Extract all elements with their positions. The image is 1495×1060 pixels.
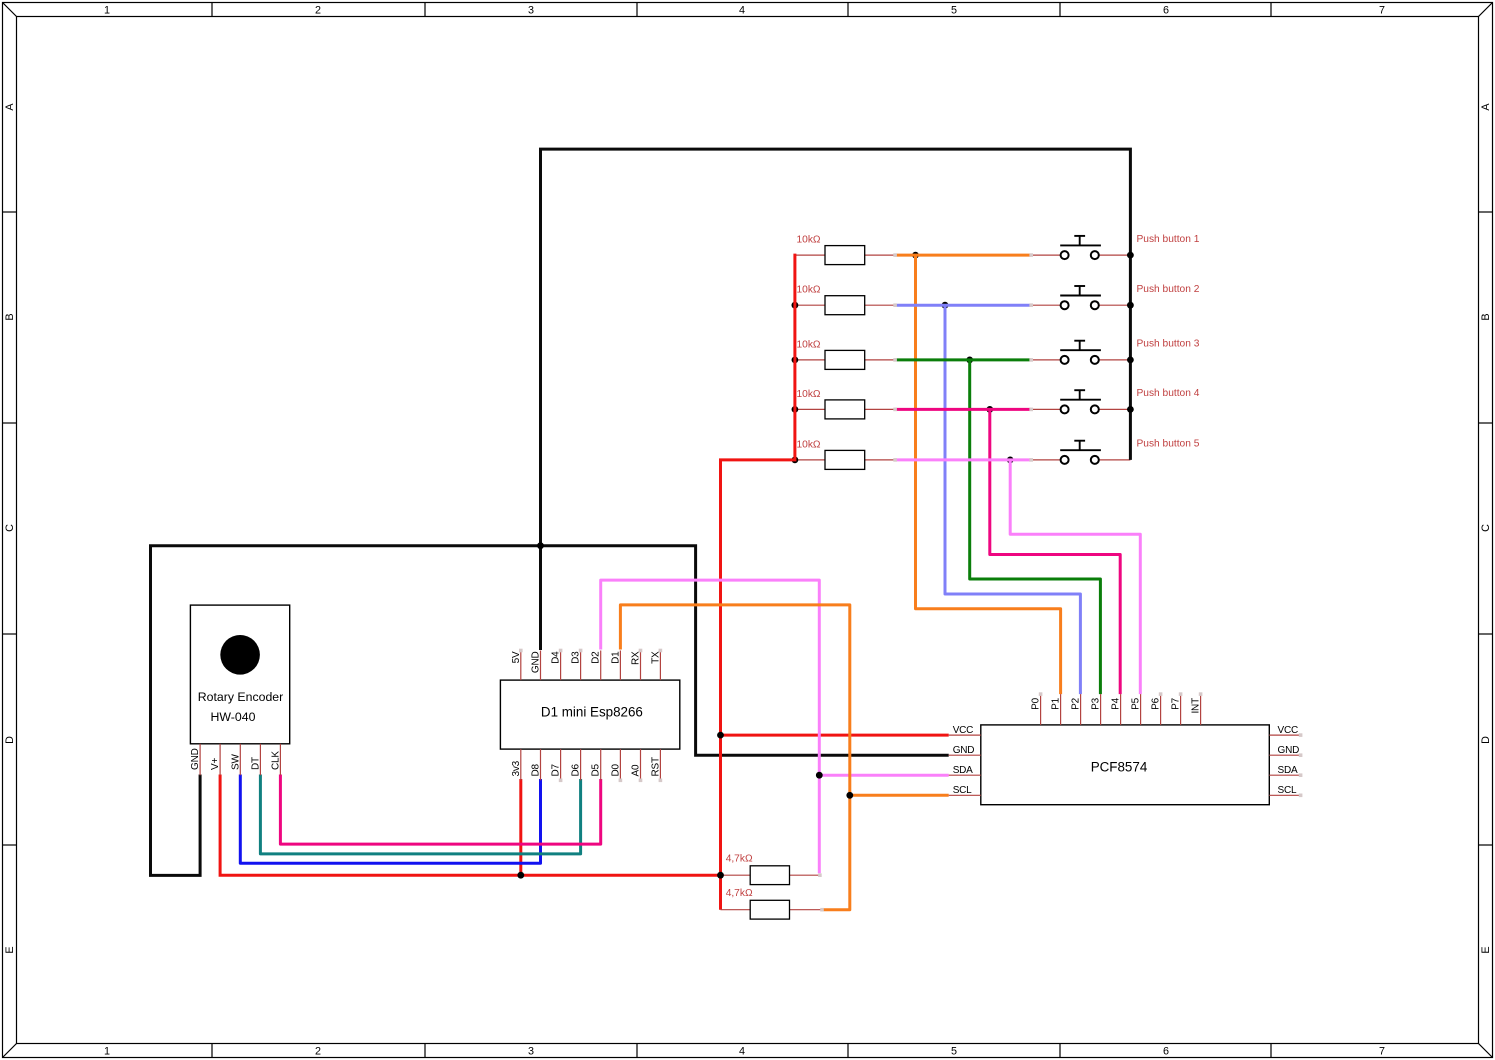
PCF8574 body U2 <box>981 725 1270 805</box>
svg-text:RST: RST <box>650 757 661 776</box>
svg-text:GND: GND <box>1278 745 1300 756</box>
svg-text:E: E <box>4 946 16 953</box>
svg-text:D1: D1 <box>610 651 621 664</box>
node resistor R2 on +V bus <box>792 302 799 309</box>
node button4 branch (under wire) <box>986 406 993 413</box>
wire: red 3v3 from D1 mini down to V+ rail <box>519 779 522 875</box>
svg-text:D4: D4 <box>551 651 562 664</box>
svg-text:A: A <box>4 103 16 111</box>
wire: SDA branch to PCF8574 <box>819 774 948 777</box>
D1 mini bottom pin labels <box>511 757 662 776</box>
wire: button row 3 colored segment <box>895 358 1031 361</box>
wire: red branch to PCF8574 VCC <box>721 734 949 737</box>
svg-text:SCL: SCL <box>1278 785 1297 796</box>
svg-text:Push button 4: Push button 4 <box>1137 388 1200 399</box>
node button5 branch (under wire) <box>1007 457 1014 464</box>
svg-text:SCL: SCL <box>953 785 972 796</box>
svg-text:D3: D3 <box>571 651 582 664</box>
svg-text:GND: GND <box>531 652 542 674</box>
frame row ticks right <box>1479 212 1493 845</box>
frame column numbers top <box>104 5 1385 17</box>
svg-text:Push button 2: Push button 2 <box>1137 284 1200 295</box>
wire: button row 4 colored segment <box>895 408 1031 411</box>
D1 mini top pins <box>521 651 661 681</box>
svg-text:Push button 3: Push button 3 <box>1137 339 1200 350</box>
svg-text:GND: GND <box>190 748 201 770</box>
PCF8574 left pins <box>949 735 981 795</box>
svg-text:P3: P3 <box>1091 697 1102 709</box>
D1 mini bottom pins <box>521 749 661 780</box>
svg-text:6: 6 <box>1163 5 1169 17</box>
svg-text:3: 3 <box>528 1046 534 1058</box>
wire: button row 1 colored segment <box>895 254 1031 257</box>
svg-text:10kΩ: 10kΩ <box>797 389 821 400</box>
wire terminal squares <box>519 253 1302 911</box>
frame column numbers bottom <box>104 1046 1385 1058</box>
svg-text:D5: D5 <box>591 763 602 776</box>
svg-text:3: 3 <box>528 5 534 17</box>
frame row letters left <box>4 103 16 954</box>
svg-text:1: 1 <box>104 5 110 17</box>
resistor 4,7k RA (SDA pull-up) <box>726 854 790 885</box>
svg-text:D8: D8 <box>531 763 542 776</box>
svg-text:RX: RX <box>631 651 642 665</box>
svg-text:P2: P2 <box>1071 697 1082 709</box>
svg-text:P5: P5 <box>1131 697 1142 709</box>
svg-text:6: 6 <box>1163 1046 1169 1058</box>
svg-text:VCC: VCC <box>1278 725 1299 736</box>
svg-text:P4: P4 <box>1111 697 1122 709</box>
wire: CLK to D5 (magenta) <box>280 775 600 845</box>
wire: button row 5 colored segment <box>895 458 1031 461</box>
node button2 branch (under wire) <box>942 302 949 309</box>
svg-text:C: C <box>4 524 16 532</box>
PCF8574 top pins <box>1041 694 1201 725</box>
svg-text:A0: A0 <box>631 764 642 776</box>
node 3v3 rail <box>517 872 524 879</box>
svg-text:E: E <box>1480 946 1492 953</box>
svg-text:INT: INT <box>1191 698 1202 714</box>
svg-text:D7: D7 <box>551 763 562 776</box>
resistor 10k R2 <box>797 285 865 315</box>
svg-text:10kΩ: 10kΩ <box>797 235 821 246</box>
wire: SW to D8 (blue) <box>240 775 540 864</box>
wire: branch from button 3 to PCF8574 P3 <box>970 360 1101 694</box>
svg-text:7: 7 <box>1379 1046 1385 1058</box>
svg-text:SDA: SDA <box>953 765 973 776</box>
svg-text:DT: DT <box>250 757 261 770</box>
rotary encoder pin labels <box>190 748 281 770</box>
node button2-GND bus <box>1127 302 1134 309</box>
svg-text:Push button 1: Push button 1 <box>1137 234 1200 245</box>
node button1 branch (under wire) <box>912 252 919 259</box>
wire: branch from button 1 to PCF8574 P1 <box>916 255 1061 694</box>
push button S2 <box>1060 286 1101 309</box>
svg-text:TX: TX <box>650 651 661 664</box>
wire: red V+ from rotary encoder to bus junction <box>220 775 720 876</box>
frame column ticks bottom <box>212 1044 1271 1058</box>
svg-text:4,7kΩ: 4,7kΩ <box>726 854 753 865</box>
push button S4 <box>1060 390 1101 413</box>
svg-text:CLK: CLK <box>270 751 281 770</box>
resistor 10k R3 <box>797 339 865 369</box>
rotary encoder HW-040 body <box>190 605 289 744</box>
svg-text:HW-040: HW-040 <box>211 710 256 724</box>
wire: +V red bus of pull-up resistors <box>721 254 795 910</box>
D1 mini top pin labels <box>511 651 662 673</box>
svg-text:V+: V+ <box>210 758 221 770</box>
svg-text:10kΩ: 10kΩ <box>797 285 821 296</box>
svg-text:D0: D0 <box>610 763 621 776</box>
svg-text:D: D <box>4 736 16 744</box>
wire: SCL net (orange) D1 to pull-up and PCF8574 SCL <box>620 605 849 910</box>
node GND cross <box>537 542 544 549</box>
PCF8574 right pins <box>1269 735 1300 795</box>
PCF8574 top pin labels <box>1031 697 1202 713</box>
resistor 10k R5 <box>797 439 865 469</box>
svg-text:B: B <box>4 313 16 320</box>
node button4-GND bus <box>1127 406 1134 413</box>
wire: GND net top loop (D1 GND up, across top, down to push buttons) <box>541 149 1131 650</box>
node button3 branch (under wire) <box>966 357 973 364</box>
svg-text:D1 mini Esp8266: D1 mini Esp8266 <box>541 705 643 720</box>
wire: branch from button 4 to PCF8574 P4 <box>990 409 1120 694</box>
push button S5 <box>1060 441 1101 464</box>
svg-text:SW: SW <box>230 754 241 770</box>
wire: DT to D6 (teal) <box>260 775 580 854</box>
frame column ticks top <box>212 3 1271 17</box>
node button3-GND bus <box>1127 357 1134 364</box>
svg-text:Push button 5: Push button 5 <box>1137 439 1200 450</box>
svg-text:Rotary Encoder: Rotary Encoder <box>198 690 283 704</box>
svg-text:4: 4 <box>739 5 745 17</box>
wire: GND net rotary-encoder loop to PCF8574 GND <box>151 546 949 876</box>
PCF8574 left pin labels <box>953 725 975 796</box>
wire: branch from button 2 to PCF8574 P2 <box>945 305 1080 694</box>
push button S1 <box>1060 236 1101 259</box>
wire: lead of 4,7k resistor RB (thin) <box>721 909 823 911</box>
resistor 10k R4 <box>797 389 865 419</box>
svg-text:5: 5 <box>951 1046 957 1058</box>
svg-text:P0: P0 <box>1031 697 1042 709</box>
node resistor R3 on +V bus <box>792 357 799 364</box>
svg-text:PCF8574: PCF8574 <box>1091 760 1148 775</box>
svg-text:1: 1 <box>104 1046 110 1058</box>
node button1-GND bus <box>1127 252 1134 259</box>
svg-text:A: A <box>1480 103 1492 111</box>
node resistor R4 on +V bus <box>792 406 799 413</box>
svg-text:P6: P6 <box>1151 697 1162 709</box>
svg-text:2: 2 <box>315 5 321 17</box>
svg-text:SDA: SDA <box>1278 765 1298 776</box>
node SDA <box>816 772 823 779</box>
wire: SCL branch to PCF8574 <box>850 794 949 797</box>
svg-text:5: 5 <box>951 5 957 17</box>
svg-text:10kΩ: 10kΩ <box>797 339 821 350</box>
rotary encoder pins <box>200 744 280 776</box>
svg-text:3v3: 3v3 <box>511 760 522 776</box>
svg-text:B: B <box>1480 313 1492 320</box>
svg-text:VCC: VCC <box>953 725 974 736</box>
svg-text:4,7kΩ: 4,7kΩ <box>726 888 753 899</box>
push button S3 <box>1060 341 1101 364</box>
resistor 10k R1 <box>797 235 865 265</box>
svg-text:D: D <box>1480 736 1492 744</box>
svg-text:2: 2 <box>315 1046 321 1058</box>
node VCC branch <box>717 732 724 739</box>
svg-text:C: C <box>1480 524 1492 532</box>
svg-text:D6: D6 <box>571 763 582 776</box>
node resistor R5 on +V bus <box>792 457 799 464</box>
node SCL <box>846 792 853 799</box>
wire: lead of 4,7k resistor RA (thin) <box>721 874 820 876</box>
D1 mini Esp8266 body U1 <box>500 680 679 749</box>
resistor 4,7k RB (SCL pull-up) <box>726 888 790 919</box>
svg-text:P7: P7 <box>1171 697 1182 709</box>
frame row ticks left <box>3 212 17 845</box>
svg-text:GND: GND <box>953 745 975 756</box>
PCF8574 right pin labels <box>1278 725 1300 796</box>
svg-text:7: 7 <box>1379 5 1385 17</box>
svg-text:5V: 5V <box>511 651 522 663</box>
frame row letters right <box>1480 103 1492 954</box>
wire: SDA net (violet) D2 to pull-up and PCF8574 SDA <box>601 580 820 873</box>
wire: button row 2 colored segment <box>895 304 1031 307</box>
wire: push button row leads (thin) <box>795 255 1131 460</box>
svg-text:10kΩ: 10kΩ <box>797 439 821 450</box>
svg-text:4: 4 <box>739 1046 745 1058</box>
wire: branch from button 5 to PCF8574 P5 <box>1010 460 1140 694</box>
svg-text:D2: D2 <box>591 651 602 664</box>
node V+ rail <box>717 872 724 879</box>
svg-text:P1: P1 <box>1051 697 1062 709</box>
